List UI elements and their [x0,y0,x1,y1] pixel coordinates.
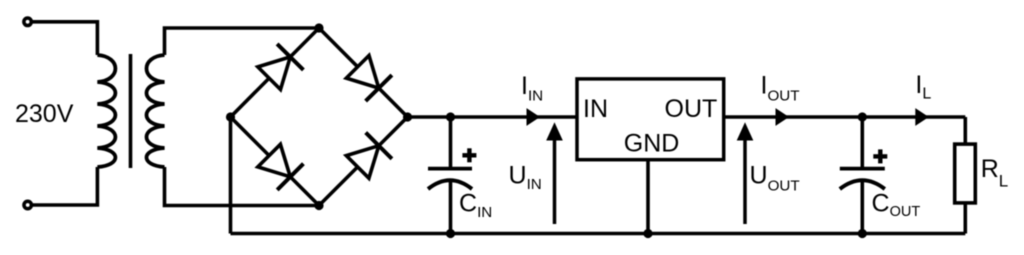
current arrow I_IN [527,108,541,126]
wire C_OUT bottom lead [860,179,864,234]
wire C_OUT top lead [860,117,864,169]
wire primary bottom [32,167,97,205]
transformer core [129,54,133,168]
wire bridge diagonal top-right [319,28,408,117]
C_IN plus sign [462,148,476,162]
svg-text:OUT: OUT [665,95,718,123]
wire secondary bottom [165,167,320,206]
primary winding L1 [97,55,115,167]
bottom rail [231,232,966,236]
resistor R_L [955,144,976,203]
top rail left segment [408,115,578,119]
wire primary top [32,22,97,55]
diode D1 [258,44,304,90]
junction C_IN bottom [446,229,455,238]
wire load branch [963,117,967,234]
wire bridge diagonal left-bottom [231,117,320,206]
diode D4 [346,133,392,179]
svg-text:IN: IN [583,95,608,123]
junction C_OUT bottom [858,229,867,238]
wire secondary top [165,28,320,55]
wire bridge diagonal left-top [231,28,320,117]
current arrow I_L [915,108,929,126]
junction C_OUT top [858,112,867,121]
diode D3 [258,144,304,190]
regulator U1 box [577,79,724,160]
wire minus rail down [229,117,233,234]
junction node left [226,112,235,121]
voltage arrow U_OUT [737,122,754,224]
junction C_IN top [446,112,455,121]
svg-text:230V: 230V [15,100,74,128]
junction node right [403,112,412,121]
junction node bottom [314,201,323,210]
wire C_IN bottom lead [449,179,453,234]
wire GND pin [646,160,650,234]
voltage arrow U_IN [546,122,563,224]
top rail right segment [724,115,966,119]
wire bridge diagonal bottom-right [319,117,408,206]
wire C_IN top lead [449,117,453,169]
junction GND bottom [643,229,652,238]
secondary winding L2 [147,55,165,167]
C_OUT plus sign [873,149,887,163]
svg-text:GND: GND [624,130,680,158]
capacitor C_OUT plates [840,169,885,189]
terminal top-left [24,18,31,25]
diode D2 [346,56,392,102]
terminal bottom-left [24,201,31,208]
capacitor C_IN plates [428,169,472,189]
current arrow I_OUT [776,108,790,126]
junction node top [314,23,323,32]
